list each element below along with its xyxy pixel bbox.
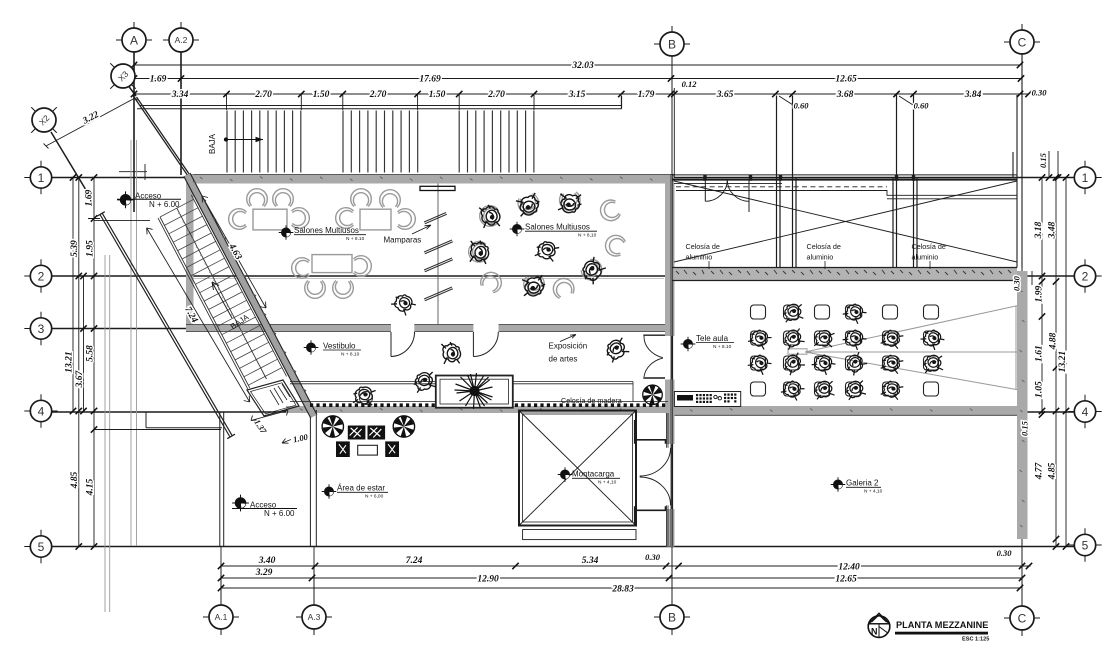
dim 4.63 diagonal [202,196,266,308]
row4 band speckles [300,408,973,412]
salon1 table 3 chairs [292,258,310,279]
wall top band salones [186,175,674,184]
label Vestibulo [304,340,319,355]
svg-text:3.40: 3.40 [258,556,276,566]
exposicion figure [602,336,630,363]
A.1 wall double [220,412,224,547]
grid bubble 5 at 41,546.5 [30,536,51,557]
tele aula projection cone [805,306,1017,390]
grid bubble B at 672,44 [660,32,684,56]
stair landing box [247,380,299,416]
A.3 wall double [310,410,316,547]
escalator double line lower [97,212,235,439]
svg-text:N + 6.00: N + 6.00 [264,509,295,518]
svg-text:Salones Multiusos: Salones Multiusos [294,226,359,235]
label Galeria 2 [831,477,846,492]
svg-text:1: 1 [1082,171,1089,185]
salon1 table 2 [360,209,391,230]
right wall speckles [1020,290,1025,527]
label Acceso top [117,191,134,208]
salon2 figure 5 standing [534,239,560,263]
facade column stubs [705,175,914,181]
svg-text:2.70: 2.70 [254,90,272,100]
svg-text:C: C [1018,611,1027,625]
vestibulo figure 1 [441,341,461,365]
grid bubble C at 1022,42 [1010,30,1034,54]
grid bubble 4 at 1085,411.5 [1074,401,1095,422]
stair treads group 3 [459,111,534,173]
svg-text:0.15: 0.15 [1020,420,1030,436]
svg-text:3.67: 3.67 [75,369,85,388]
title underline bar [895,632,988,635]
svg-text:13.21: 13.21 [65,351,75,372]
svg-text:ESC 1:125: ESC 1:125 [962,637,989,643]
svg-text:3.84: 3.84 [964,90,982,100]
stair direction arrow [212,282,232,318]
montacarga double door arcs [640,448,671,506]
B wall double lines below row4 [667,174,673,546]
svg-text:1.50: 1.50 [313,90,330,100]
left dim verticals [73,178,94,547]
dim 3.22 diagonal X2 [44,96,138,149]
dim segment row [134,93,1029,95]
fan rosette at celosia [643,385,663,405]
landing hatch [270,384,290,405]
svg-text:3.48: 3.48 [1048,221,1058,239]
svg-text:Tele aula: Tele aula [696,334,729,343]
salon2 empty chairs [598,198,622,223]
grid bubble 1 at 41,177.5 [30,167,51,188]
grid bubble A.1 at 221,617 [209,605,233,629]
window mullion pair 3 [893,94,897,268]
grid bubble B at 672,617 [660,605,684,629]
grid row 4 [52,411,1074,413]
label Salones Multiusos left [279,225,294,240]
svg-text:0.30: 0.30 [645,552,661,562]
cone apex rect [788,349,807,354]
vestibulo wheelchair figure [352,385,376,406]
svg-text:3.65: 3.65 [716,90,734,100]
bottom dim row 3 [221,587,1020,589]
salon1 table 1 chairs [247,189,268,207]
stair treads [160,199,282,385]
svg-text:0.15: 0.15 [1038,152,1048,168]
svg-text:2.70: 2.70 [369,90,387,100]
side chair right [385,441,399,457]
svg-text:4: 4 [1082,405,1089,419]
wall B vertical gray (salones to row4) [665,184,675,337]
acceso landing wall notch [146,412,222,428]
grid bubble C at 1022,618 [1010,606,1034,630]
svg-text:A.2: A.2 [175,35,188,45]
facade door double leaves [705,180,749,212]
bottom circle stems [221,547,1022,607]
montacarga bottom tray [523,530,636,540]
svg-text:0.60: 0.60 [794,101,810,111]
svg-text:N + 4,10: N + 4,10 [598,480,617,486]
facade dashed offset line [676,186,887,188]
row4 band right thicker [669,406,1017,415]
svg-text:12.90: 12.90 [477,575,499,585]
mampara panel 1 [424,213,447,224]
salon2 figure 6 [579,257,606,284]
dim line 32.03 [134,64,1020,66]
door gap 2 in salones bottom wall [473,324,498,333]
svg-text:3.68: 3.68 [836,90,854,100]
montacarga shaft outer [519,411,636,526]
svg-text:3.15: 3.15 [568,90,586,100]
svg-text:N + 6.00: N + 6.00 [149,200,180,209]
armchair 1 [348,426,366,440]
planter box inner [440,379,509,404]
aluminium sill band rows1-2 right [672,268,1017,281]
svg-text:A.1: A.1 [215,612,228,622]
top band speckles [200,177,653,182]
area de estar fan 2 [393,416,414,437]
svg-text:1.99: 1.99 [1035,285,1045,302]
grid bubble A.2 at 181,40 [169,28,193,52]
celosia leader lines [709,261,930,269]
label Tele aula [681,337,696,352]
axis X3 diagonal [115,68,136,96]
window mullion pair 4 [914,94,918,268]
stair rail outer [158,217,250,389]
construction light pair at A wall [131,140,137,546]
svg-text:4: 4 [38,404,45,418]
svg-text:32.03: 32.03 [571,61,594,71]
salon2 figure 4 [468,241,488,263]
window mullion pair 2 [793,96,797,268]
svg-text:12.40: 12.40 [838,563,860,573]
left stub row4a [94,429,221,431]
vestibulo figure 2 [412,370,437,393]
salon1 table 3 [312,255,352,273]
svg-text:N + 4,10: N + 4,10 [864,489,883,495]
svg-text:A.3: A.3 [308,612,321,622]
svg-text:28.83: 28.83 [611,585,634,595]
celosia de madera dotted squares [310,403,665,407]
right dim verticals [1032,151,1066,547]
svg-text:4.15: 4.15 [86,478,96,496]
window mullion pair 1 [777,96,781,268]
dim 1.37 line [251,411,288,421]
facade X brace line 1 [674,181,1017,262]
grid bubble A at 134,40 [122,28,146,52]
svg-text:1.79: 1.79 [638,90,655,100]
construction light pair x105 [105,255,110,612]
svg-text:Área de estar: Área de estar [337,484,385,493]
montacarga X cross [519,411,636,526]
mampara panel 4 [424,287,453,301]
mampara panel 2 [424,240,453,254]
stair step number dots [178,213,246,340]
mampara panel 3 [424,258,453,272]
svg-text:Montacarga: Montacarga [572,470,615,479]
B wall gray stub upper below row4 [667,413,675,444]
svg-text:Galeria 2: Galeria 2 [846,479,879,488]
armchair 2 [368,426,386,440]
stair band speckles [193,181,306,391]
stair treads group 2 [343,111,418,173]
side chair left [336,441,350,457]
right vertical wall C side [1017,271,1028,539]
BAJA direction arrow [224,137,263,142]
salon2 figure 1 [480,206,498,227]
svg-text:Exposición: Exposición [549,342,588,351]
svg-text:PLANTA MEZZANINE: PLANTA MEZZANINE [896,620,988,630]
salon2 figure 3 [559,192,581,212]
grid row 2 shadow line [192,277,664,279]
tele aula chairs grid [747,300,946,401]
facade door arcs [705,180,749,202]
svg-text:3.18: 3.18 [1034,221,1044,239]
grid row 2 [52,275,1074,277]
salon1 table 2 chairs [351,189,372,207]
dimension ticks [70,62,1069,591]
montacarga door jamb bottom [635,506,666,525]
svg-text:3: 3 [38,322,45,336]
svg-text:A: A [130,33,138,47]
aluminium sill speckles [676,270,1011,275]
grid axis A.2 vertical [180,52,182,175]
facade X brace line 2 [674,181,1017,262]
grid bubble 3 at 41,328.5 [30,318,51,339]
svg-text:N + 6,00: N + 6,00 [365,494,384,500]
svg-text:1.69: 1.69 [85,189,95,206]
svg-text:3.29: 3.29 [255,568,273,578]
svg-text:BAJA: BAJA [208,133,217,154]
grid row 1 [52,177,1074,179]
tick droppers top [134,65,674,177]
svg-text:5.58: 5.58 [86,345,96,362]
svg-text:aluminio: aluminio [686,253,713,262]
door leaf 1 vestibulo [391,332,415,357]
door gap 1 in salones bottom wall [391,324,414,333]
salon1 figure 8 [390,290,417,316]
svg-text:1.50: 1.50 [429,90,446,100]
bottom dim row 1 [221,565,1031,567]
salon2 figure 7 [524,277,545,295]
vestibulo ledge rail lines [290,382,668,402]
svg-text:5.39: 5.39 [70,240,80,257]
salon1 table 1 [253,209,287,230]
grid bubble 2 at 1085,276 [1074,265,1095,286]
svg-text:12.65: 12.65 [835,75,857,85]
svg-text:B: B [668,610,676,624]
grid bubble A.3 at 314,617 [302,605,326,629]
svg-text:Mamparas: Mamparas [384,236,422,245]
axis X2 diagonal [51,132,86,190]
stair diagonal gray wall band [184,173,317,418]
svg-text:Celosía de: Celosía de [686,242,720,251]
left tick stub 1.69 [88,219,150,221]
wall salones bottom band [186,325,672,332]
svg-text:N + 8.10: N + 8.10 [713,344,732,350]
svg-text:Vestibulo: Vestibulo [323,341,356,350]
svg-text:5: 5 [38,540,45,554]
svg-text:0.12: 0.12 [682,79,698,89]
svg-text:0.60: 0.60 [914,101,930,111]
svg-text:de artes: de artes [549,355,578,364]
door leaf 2 vestibulo [473,332,498,357]
montacarga shaft inner [523,414,633,522]
grid bubble 4 at 41,411 [30,400,51,421]
svg-text:17.69: 17.69 [419,75,441,85]
svg-text:aluminio: aluminio [807,253,834,262]
label Salones Multiusos right [510,222,525,237]
svg-text:5.34: 5.34 [582,556,599,566]
svg-text:4.88: 4.88 [1049,332,1059,350]
palm plant [455,373,493,409]
svg-text:0.30: 0.30 [1012,275,1022,291]
grid bubble X2 at 44,120 [19,95,70,146]
grid bubble 1 at 1085,177.5 [1074,167,1095,188]
svg-text:4.85: 4.85 [70,471,80,489]
mamparas stacked panel [420,186,455,190]
grid bubble 5 at 1085,545 [1074,534,1095,555]
stair rail middle [177,208,267,379]
svg-text:2.70: 2.70 [487,90,505,100]
grid row 3 (left stub) [52,328,190,330]
tele aula console keyboard [674,392,740,407]
svg-text:7.24: 7.24 [406,556,423,566]
svg-text:2: 2 [38,269,45,283]
facade inner line with step [676,191,1017,199]
facade row1 triple lines B to C [672,174,1017,176]
svg-text:Celosía de: Celosía de [912,242,946,251]
svg-text:0.30: 0.30 [997,548,1013,558]
stair treads group 1 [227,111,301,173]
C wall verticals top [1013,54,1022,268]
label Area de estar [322,484,337,499]
svg-text:N + 8.10: N + 8.10 [346,236,365,242]
upper-left diagonal wall A to salones corner [134,97,191,176]
dim 7.24 diagonal [147,228,250,402]
svg-text:2: 2 [1082,269,1089,283]
svg-text:Salones Multiusos: Salones Multiusos [525,223,590,232]
dim 1.00 [282,439,291,444]
B wall gray stub lower [667,509,675,547]
montacarga door jamb top [635,420,666,444]
svg-text:N + 8.10: N + 8.10 [341,351,360,357]
grid bubble 2 at 41,276 [30,265,51,286]
row4 wall band [286,406,1017,413]
svg-text:N + 8,10: N + 8,10 [578,232,597,238]
stair rail inner [191,195,286,377]
svg-text:1.61: 1.61 [1035,345,1045,362]
stair hall top edge double line [137,96,622,109]
svg-text:13.21: 13.21 [1058,351,1068,372]
wall left band salones [186,175,194,332]
svg-text:0.30: 0.30 [1032,88,1048,98]
wall T-mark row1 left [119,164,147,180]
coffee table [358,445,378,455]
svg-text:1.69: 1.69 [150,75,167,85]
grid bubble X3 at 123,76 [98,51,149,102]
svg-text:4.77: 4.77 [1035,461,1045,480]
grid axis B vertical [671,56,673,605]
svg-text:1.95: 1.95 [86,240,96,257]
grid axis A.3 vertical [313,566,315,605]
grid axis C vertical [1021,54,1023,606]
svg-text:5: 5 [1082,538,1089,552]
svg-text:B: B [668,37,676,51]
mamparas track line [437,184,439,325]
svg-text:1.05: 1.05 [1035,381,1045,398]
dim line 1.69/17.69/12.65 [134,78,1021,80]
svg-text:4.85: 4.85 [1048,462,1058,480]
label Acceso bottom [232,495,249,512]
svg-text:N: N [871,627,878,637]
svg-text:3.34: 3.34 [171,90,189,100]
north logo [868,616,890,638]
0.60 leader 2 [899,96,913,105]
svg-text:Celosía de: Celosía de [807,242,841,251]
corridor double door B wall [643,335,665,378]
0.60 leader 1 [779,96,793,105]
svg-text:C: C [1018,35,1027,49]
svg-text:12.65: 12.65 [835,575,857,585]
svg-text:1: 1 [38,171,45,185]
svg-text:Celosía de madera: Celosía de madera [561,396,622,405]
grid row 5 [52,546,1074,548]
grid axis A.1 vertical [220,566,222,605]
grid axis A vertical [133,52,135,212]
salon2 figure 2 [516,193,541,217]
label Montacarga [558,467,573,482]
bottom dim row 2 [221,577,1022,579]
area de estar fan 1 [322,416,343,437]
planter box outer [436,376,513,408]
svg-text:aluminio: aluminio [912,253,939,262]
